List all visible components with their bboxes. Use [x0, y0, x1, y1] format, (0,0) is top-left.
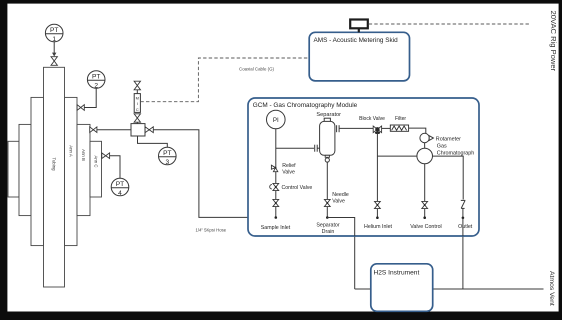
svg-text:PI: PI [273, 117, 279, 124]
tubing column [44, 67, 65, 287]
outlet restriction symbol [461, 200, 466, 217]
casing Ann B right rect [77, 124, 90, 215]
separator bottom nub [325, 155, 329, 157]
wire Ann C valve to PT4 [110, 156, 120, 179]
instrument PT4 [111, 178, 129, 196]
valve Ann C (horizontal bowtie) [102, 153, 110, 159]
svg-text:Ann A: Ann A [68, 145, 73, 157]
valve Ann B (horizontal bowtie) [90, 127, 97, 133]
GCM box [248, 98, 479, 236]
wire: separator drain down leg [354, 236, 356, 289]
fitting separator left [315, 145, 320, 152]
svg-text:M: M [136, 96, 139, 101]
wire block valve to filter [382, 127, 391, 129]
svg-text:4: 4 [118, 190, 122, 197]
coax dashed run MIC to AMS [140, 58, 309, 102]
svg-text:Helium Inlet: Helium Inlet [364, 224, 392, 230]
svg-text:Valve: Valve [282, 170, 295, 176]
casing Ann A right rect [65, 97, 78, 245]
wire helium riser [376, 133, 378, 218]
wire separator to block valve [339, 127, 373, 129]
svg-text:PT: PT [92, 74, 100, 81]
svg-text:Tubing: Tubing [52, 158, 57, 172]
instrument PT3 [159, 147, 177, 165]
svg-text:Ann C: Ann C [93, 156, 98, 168]
wire outlet exits box [462, 218, 464, 236]
svg-text:H2S Instrument: H2S Instrument [374, 270, 420, 277]
svg-text:Separator: Separator [316, 223, 339, 229]
valve control isolation [422, 201, 428, 208]
relief valve [271, 165, 275, 169]
svg-text:AMS - Acoustic Metering Skid: AMS - Acoustic Metering Skid [314, 37, 399, 44]
wire drain to vent drop [327, 218, 354, 237]
svg-text:Block Valve: Block Valve [359, 116, 385, 122]
border frame bottom bar [0, 312, 562, 320]
wire GC down to valve control [424, 164, 426, 218]
valve tubing master (vertical bowtie) [51, 57, 57, 66]
border frame top bar [0, 0, 562, 4]
svg-text:GCM - Gas Chromatography Modul: GCM - Gas Chromatography Module [253, 102, 358, 109]
wire PI down sample line [275, 129, 277, 218]
instrument PT2 [87, 71, 105, 89]
svg-text:Ann B: Ann B [81, 149, 86, 161]
wire PT2 to Ann A valve [84, 88, 96, 107]
valve sample isolation (vertical bowtie) [273, 199, 279, 206]
svg-text:Gas: Gas [437, 144, 447, 150]
svg-text:C: C [136, 107, 139, 112]
valve block (ball valve) [373, 126, 381, 133]
instrument PT1 [45, 24, 63, 42]
valve manifold outlet (horizontal bowtie) [145, 127, 153, 133]
svg-text:20VAC Rig Power: 20VAC Rig Power [549, 11, 558, 72]
svg-text:Drain: Drain [322, 229, 335, 235]
drain fitting circle [325, 158, 329, 162]
wire GC to outlet [433, 156, 464, 199]
wire manifold to PT3 [138, 136, 168, 147]
svg-text:1/4" 5Kpsi Hose: 1/4" 5Kpsi Hose [195, 228, 226, 233]
svg-text:I: I [137, 101, 138, 106]
junction dots [275, 216, 278, 219]
casing Ann A left rect [31, 97, 44, 245]
casing Ann B left rect [19, 124, 31, 215]
svg-text:Separator: Separator [316, 112, 341, 118]
svg-text:PT: PT [116, 181, 124, 188]
manifold box [131, 124, 145, 136]
valve helium isolation [375, 201, 381, 208]
wire PT1 to tubing valve [53, 42, 55, 54]
casing Ann C right rect [90, 141, 102, 197]
dashed rig power line [369, 23, 531, 25]
wire: vent header to Atmos Vent [355, 288, 544, 290]
wire valve to MIC body [136, 90, 138, 94]
svg-text:PT: PT [50, 27, 58, 34]
H2S instrument box [371, 264, 433, 312]
wire: outlet down leg [462, 236, 464, 289]
AMS box [309, 32, 409, 81]
wire helium to GC [377, 155, 417, 157]
wire separator drain [326, 162, 328, 217]
svg-text:PT: PT [163, 150, 171, 157]
valve MIC top (vertical bowtie) [134, 81, 140, 90]
wire Ann B valve to manifold [97, 129, 131, 131]
svg-text:Sample Inlet: Sample Inlet [261, 225, 291, 231]
monitor icon [350, 20, 368, 29]
wire valve to manifold box [136, 122, 138, 123]
svg-text:Outlet: Outlet [458, 224, 473, 230]
border frame right bar [559, 0, 562, 320]
svg-text:Valve Control: Valve Control [410, 224, 441, 230]
casing Ann C left rect [8, 67, 102, 287]
arrowhead down [52, 53, 56, 57]
svg-text:Filter: Filter [395, 116, 406, 122]
filter element [390, 125, 408, 131]
svg-text:Valve: Valve [332, 199, 345, 205]
border frame left bar [0, 0, 7, 320]
svg-text:Control Valve: Control Valve [282, 185, 313, 191]
svg-text:Atmos Vent: Atmos Vent [548, 271, 555, 306]
svg-text:3: 3 [165, 159, 169, 166]
svg-text:Rotameter: Rotameter [436, 137, 461, 143]
instrument PI [267, 110, 286, 129]
svg-text:Coaxial Cable (G): Coaxial Cable (G) [239, 67, 274, 72]
gas chromatograph circle [417, 148, 433, 164]
MIC body [134, 94, 140, 113]
valve MIC bottom (vertical bowtie) [134, 114, 140, 122]
wire rotameter to GC [424, 143, 426, 149]
wire sample hose to GCM [153, 130, 275, 218]
wire tee to separator [276, 147, 314, 149]
svg-text:Needle: Needle [332, 192, 349, 198]
control valve [270, 185, 272, 189]
wire filter to rotameter [409, 128, 426, 133]
rotameter [420, 133, 429, 142]
needle valve [324, 199, 330, 206]
valve Ann A (horizontal bowtie) [77, 105, 84, 111]
fitting separator right [337, 125, 340, 132]
svg-text:Relief: Relief [282, 163, 296, 169]
